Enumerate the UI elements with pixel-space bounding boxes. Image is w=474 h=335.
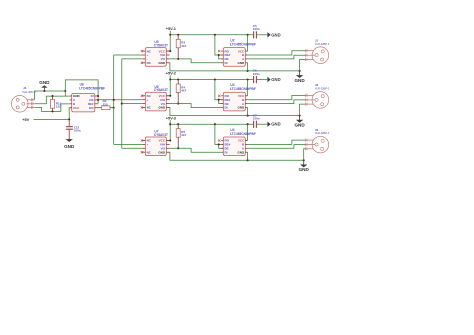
svg-text:GND: GND — [271, 77, 280, 82]
op-amp U2 LTC485CN8#PBF driver — [218, 39, 256, 67]
wire enable drop — [215, 80, 219, 100]
ground GND (below XLR) — [294, 71, 305, 83]
svg-text:4k7: 4k7 — [181, 133, 186, 137]
wire U4 VCC to rail — [247, 124, 249, 140]
svg-text:XLR-32BP-2: XLR-32BP-2 — [315, 87, 330, 91]
resistor R2 220 — [98, 99, 114, 109]
wire +5V to U8 VCC and C12 — [34, 118, 70, 120]
junction rail-enable — [214, 78, 216, 80]
wire DE to row2 input — [98, 99, 143, 101]
wire XLR gnd feed — [300, 59, 306, 71]
junction — [68, 118, 70, 120]
wire bus1 to row1 — [114, 54, 143, 56]
svg-text:GND: GND — [294, 78, 305, 83]
junction rail-label — [169, 34, 171, 36]
wire U2 GND drop — [247, 63, 249, 71]
junction — [64, 90, 66, 92]
ground GND (below XLR) — [299, 160, 310, 172]
ground GND (below C12) — [64, 139, 75, 149]
wire +5V rail row2 — [170, 79, 253, 81]
junction rail-enable — [214, 123, 216, 125]
svg-text:LTC485CN8#PBF: LTC485CN8#PBF — [230, 43, 256, 47]
ground GND (below XLR) — [294, 116, 305, 128]
ground GND (decoupling, sideways) — [267, 77, 280, 82]
junction R-VO — [177, 147, 179, 149]
junction VCC pin — [169, 95, 171, 97]
ground GND (decoupling, sideways) — [267, 122, 280, 127]
wire XLR gnd feed — [300, 104, 306, 116]
junction — [51, 110, 53, 112]
connector J4 XLR-3MP-2 — [11, 86, 36, 112]
op-amp U8 LTC485CN8#PBF transceiver — [70, 83, 105, 112]
connector J1 XLR-32BP-2 — [305, 39, 329, 64]
wire RE-DE tie — [219, 100, 224, 104]
wire U3 VCC to rail — [247, 80, 249, 96]
resistor R11 120 termination — [51, 96, 62, 111]
svg-text:XLR-32BP-2: XLR-32BP-2 — [315, 131, 330, 135]
wire bus2 to row3 — [122, 147, 143, 149]
svg-text:GND: GND — [64, 144, 75, 149]
svg-text:XLR-32BP-2: XLR-32BP-2 — [315, 42, 330, 46]
wire U2 A to XLR — [248, 55, 306, 59]
junction DE — [97, 99, 99, 101]
svg-text:GND: GND — [271, 122, 280, 127]
junction rail-R — [177, 78, 179, 80]
wire RE-DE tie — [219, 144, 224, 148]
junction R-VO — [177, 58, 179, 60]
svg-text:GND: GND — [158, 106, 166, 110]
wire +5V rail row3 — [170, 123, 253, 125]
wire enable drop — [215, 35, 219, 55]
resistor R4 4k7 pullup — [176, 80, 186, 104]
svg-text:+5V: +5V — [22, 117, 29, 122]
svg-text:+5V-3: +5V-3 — [166, 115, 177, 120]
wire bus2 to row2 — [122, 103, 143, 105]
junction rail-enable — [214, 34, 216, 36]
junction bus2-row2 — [121, 103, 123, 105]
wire U7 VO to U4 DI — [170, 148, 222, 152]
junction rail-VCC2 — [247, 34, 249, 36]
svg-text:GND: GND — [238, 61, 246, 65]
junction rail-VCC2 — [247, 123, 249, 125]
connector J3 XLR-32BP-2 — [305, 128, 329, 153]
op-amp U4 LTC485CN8#PBF driver — [218, 128, 256, 156]
wire GND drop to U8 pin — [65, 91, 69, 96]
wire RE-DE tie — [219, 55, 224, 59]
svg-text:GND: GND — [299, 167, 310, 172]
wire vertical bus 1 — [113, 55, 115, 144]
svg-text:DI: DI — [225, 150, 228, 154]
resistor R5 4k7 pullup — [176, 124, 186, 148]
wire U6 VO to U3 DI — [170, 104, 222, 108]
junction rail-label — [169, 123, 171, 125]
svg-text:4k7: 4k7 — [181, 44, 186, 48]
junction gnd line U drop — [247, 115, 249, 117]
transistor U5 CY8AV3T isolator — [141, 40, 170, 66]
junction tie — [218, 143, 220, 145]
wire XLR pin1 to U8 GND — [35, 96, 66, 104]
junction rail-R — [177, 123, 179, 125]
wire U3 A to XLR — [248, 100, 306, 104]
svg-text:+5V-1: +5V-1 — [166, 26, 177, 31]
resistor R3 4k7 pullup — [176, 35, 186, 59]
transistor U7 CY8AV3T isolator — [141, 130, 170, 156]
junction gnd line U drop — [247, 70, 249, 72]
svg-text:GND: GND — [158, 150, 166, 154]
svg-text:DI: DI — [225, 106, 228, 110]
capacitor C6 100n — [253, 69, 267, 84]
capacitor C12 100n — [66, 119, 81, 138]
wire U6 GND to row gnd line — [170, 108, 300, 116]
wire U3 B to XLR — [248, 95, 306, 99]
svg-text:J4: J4 — [23, 86, 27, 90]
wire XLR pin3 to U8 B — [35, 104, 70, 112]
svg-text:100n: 100n — [253, 117, 260, 121]
svg-text:RO: RO — [89, 106, 94, 110]
svg-text:GND: GND — [158, 61, 166, 65]
svg-text:100n: 100n — [253, 27, 260, 31]
wire vertical bus 2 — [121, 59, 123, 148]
junction gnd line xlr — [299, 115, 301, 117]
wire enable drop — [215, 124, 219, 144]
wire bus2 to row1 — [122, 58, 143, 60]
junction bus1-row2 — [113, 99, 115, 101]
wire +5V drop to U7 VCC — [166, 124, 170, 140]
junction — [51, 95, 53, 97]
junction tie — [218, 99, 220, 101]
junction gnd line U drop — [247, 159, 249, 161]
svg-text:+5V-2: +5V-2 — [166, 71, 177, 76]
wire U5 VO to U2 DI — [170, 59, 222, 63]
svg-text:120: 120 — [56, 105, 61, 109]
junction R2 out — [113, 107, 115, 109]
junction gnd line xlr — [299, 70, 301, 72]
wire U4 GND drop — [247, 152, 249, 160]
junction — [43, 90, 45, 92]
wire U4 B to XLR — [248, 140, 306, 144]
junction gnd line xlr — [303, 159, 305, 161]
svg-text:220: 220 — [103, 102, 108, 106]
transistor U6 CY8AV3T isolator — [141, 85, 170, 111]
wire +5V rail row1 — [170, 34, 253, 36]
svg-text:100n: 100n — [74, 129, 81, 133]
svg-text:GND: GND — [39, 80, 50, 85]
junction R-VO — [177, 103, 179, 105]
capacitor C7 100n — [253, 113, 267, 128]
wire U3 GND drop — [247, 108, 249, 116]
svg-text:LTC485CN8#PBF: LTC485CN8#PBF — [230, 87, 256, 91]
svg-text:CY8AV3T: CY8AV3T — [154, 88, 168, 92]
svg-text:VCC: VCC — [73, 106, 80, 110]
wire U2 B to XLR — [248, 51, 306, 55]
junction DI — [97, 95, 99, 97]
svg-text:GND: GND — [238, 106, 246, 110]
wire XLR gnd feed — [304, 149, 306, 161]
junction rail-label — [169, 78, 171, 80]
svg-text:LTC485CN8#PBF: LTC485CN8#PBF — [230, 132, 256, 136]
wire U7 GND to row gnd line — [170, 152, 304, 160]
wire U5 GND to row gnd line — [170, 63, 300, 71]
ground GND (input, arrow up) — [39, 80, 50, 91]
svg-text:LTC485CN8#PBF: LTC485CN8#PBF — [79, 86, 105, 90]
svg-text:GND: GND — [238, 150, 246, 154]
svg-text:DI: DI — [225, 61, 228, 65]
wire U4 A to XLR — [248, 145, 306, 149]
junction tie — [218, 54, 220, 56]
junction rail-VCC2 — [247, 78, 249, 80]
svg-text:CY8AV3T: CY8AV3T — [154, 133, 168, 137]
capacitor C5 100n — [253, 24, 267, 39]
svg-text:100n: 100n — [253, 72, 260, 76]
junction VCC pin — [169, 50, 171, 52]
svg-text:4k7: 4k7 — [181, 89, 186, 93]
junction VCC pin — [169, 139, 171, 141]
wire +5V drop to U6 VCC — [166, 80, 170, 96]
junction rail-R — [177, 34, 179, 36]
wire GND loop over U8 — [65, 80, 98, 104]
svg-text:GND: GND — [294, 123, 305, 128]
op-amp U3 LTC485CN8#PBF driver — [218, 83, 256, 111]
svg-text:GND: GND — [271, 32, 280, 37]
connector J2 XLR-32BP-2 — [305, 83, 329, 108]
svg-text:CY8AV3T: CY8AV3T — [154, 43, 168, 47]
wire XLR pin2 to GND rail — [34, 91, 65, 100]
ground GND (decoupling, sideways) — [267, 32, 280, 37]
wire bus1 to row3 — [114, 143, 143, 145]
wire +5V drop to U5 VCC — [166, 35, 170, 51]
wire U2 VCC to rail — [247, 35, 249, 51]
